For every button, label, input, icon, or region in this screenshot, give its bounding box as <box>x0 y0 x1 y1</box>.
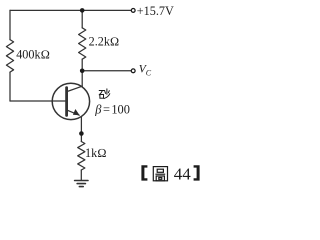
caption bracket 】 <box>194 165 200 180</box>
junction node top (Vcc to 2.2k) <box>80 8 85 13</box>
resistor 1kΩ <box>78 142 85 171</box>
transistor Q1 collector diagonal <box>67 86 82 91</box>
junction node Vc <box>80 69 85 74</box>
wire Vc horizontal <box>82 70 131 72</box>
caption bracket 【 <box>141 165 147 180</box>
wire top rail <box>10 9 131 11</box>
svg-text:1kΩ: 1kΩ <box>85 146 107 160</box>
resistor 400kΩ <box>6 40 13 73</box>
ground <box>75 180 88 182</box>
transistor Q1 circle <box>52 83 89 119</box>
transistor Q1 base bar <box>65 88 68 116</box>
wire 2.2k top lead <box>81 10 83 27</box>
wire collector vertical <box>81 71 83 86</box>
svg-text:44: 44 <box>174 165 192 184</box>
svg-text:400kΩ: 400kΩ <box>16 48 50 62</box>
wire 2.2k bottom lead to Vc node <box>81 59 83 71</box>
wire left vertical (bottom lead of R 400k) <box>9 72 11 101</box>
resistor 2.2kΩ <box>79 28 86 59</box>
svg-text:2.2kΩ: 2.2kΩ <box>89 34 120 48</box>
terminal Vc open circle <box>131 69 135 73</box>
junction node emitter <box>79 131 84 136</box>
label 矽 (silicon) drawn glyph <box>99 89 110 99</box>
terminal +15.7V open circle <box>131 9 135 13</box>
svg-text:β=100: β=100 <box>94 103 130 117</box>
wire 1k bottom lead <box>80 170 82 180</box>
svg-text:C: C <box>146 69 152 78</box>
svg-text:+15.7V: +15.7V <box>137 4 174 18</box>
wire base lead <box>10 100 65 102</box>
transistor Q1 emitter diagonal <box>67 110 79 115</box>
caption 圖 drawn glyph <box>153 167 167 181</box>
wire emitter vertical <box>80 117 82 142</box>
transistor Q1 emitter arrowhead <box>73 109 80 115</box>
wire left vertical (top lead of R 400k) <box>9 10 11 39</box>
